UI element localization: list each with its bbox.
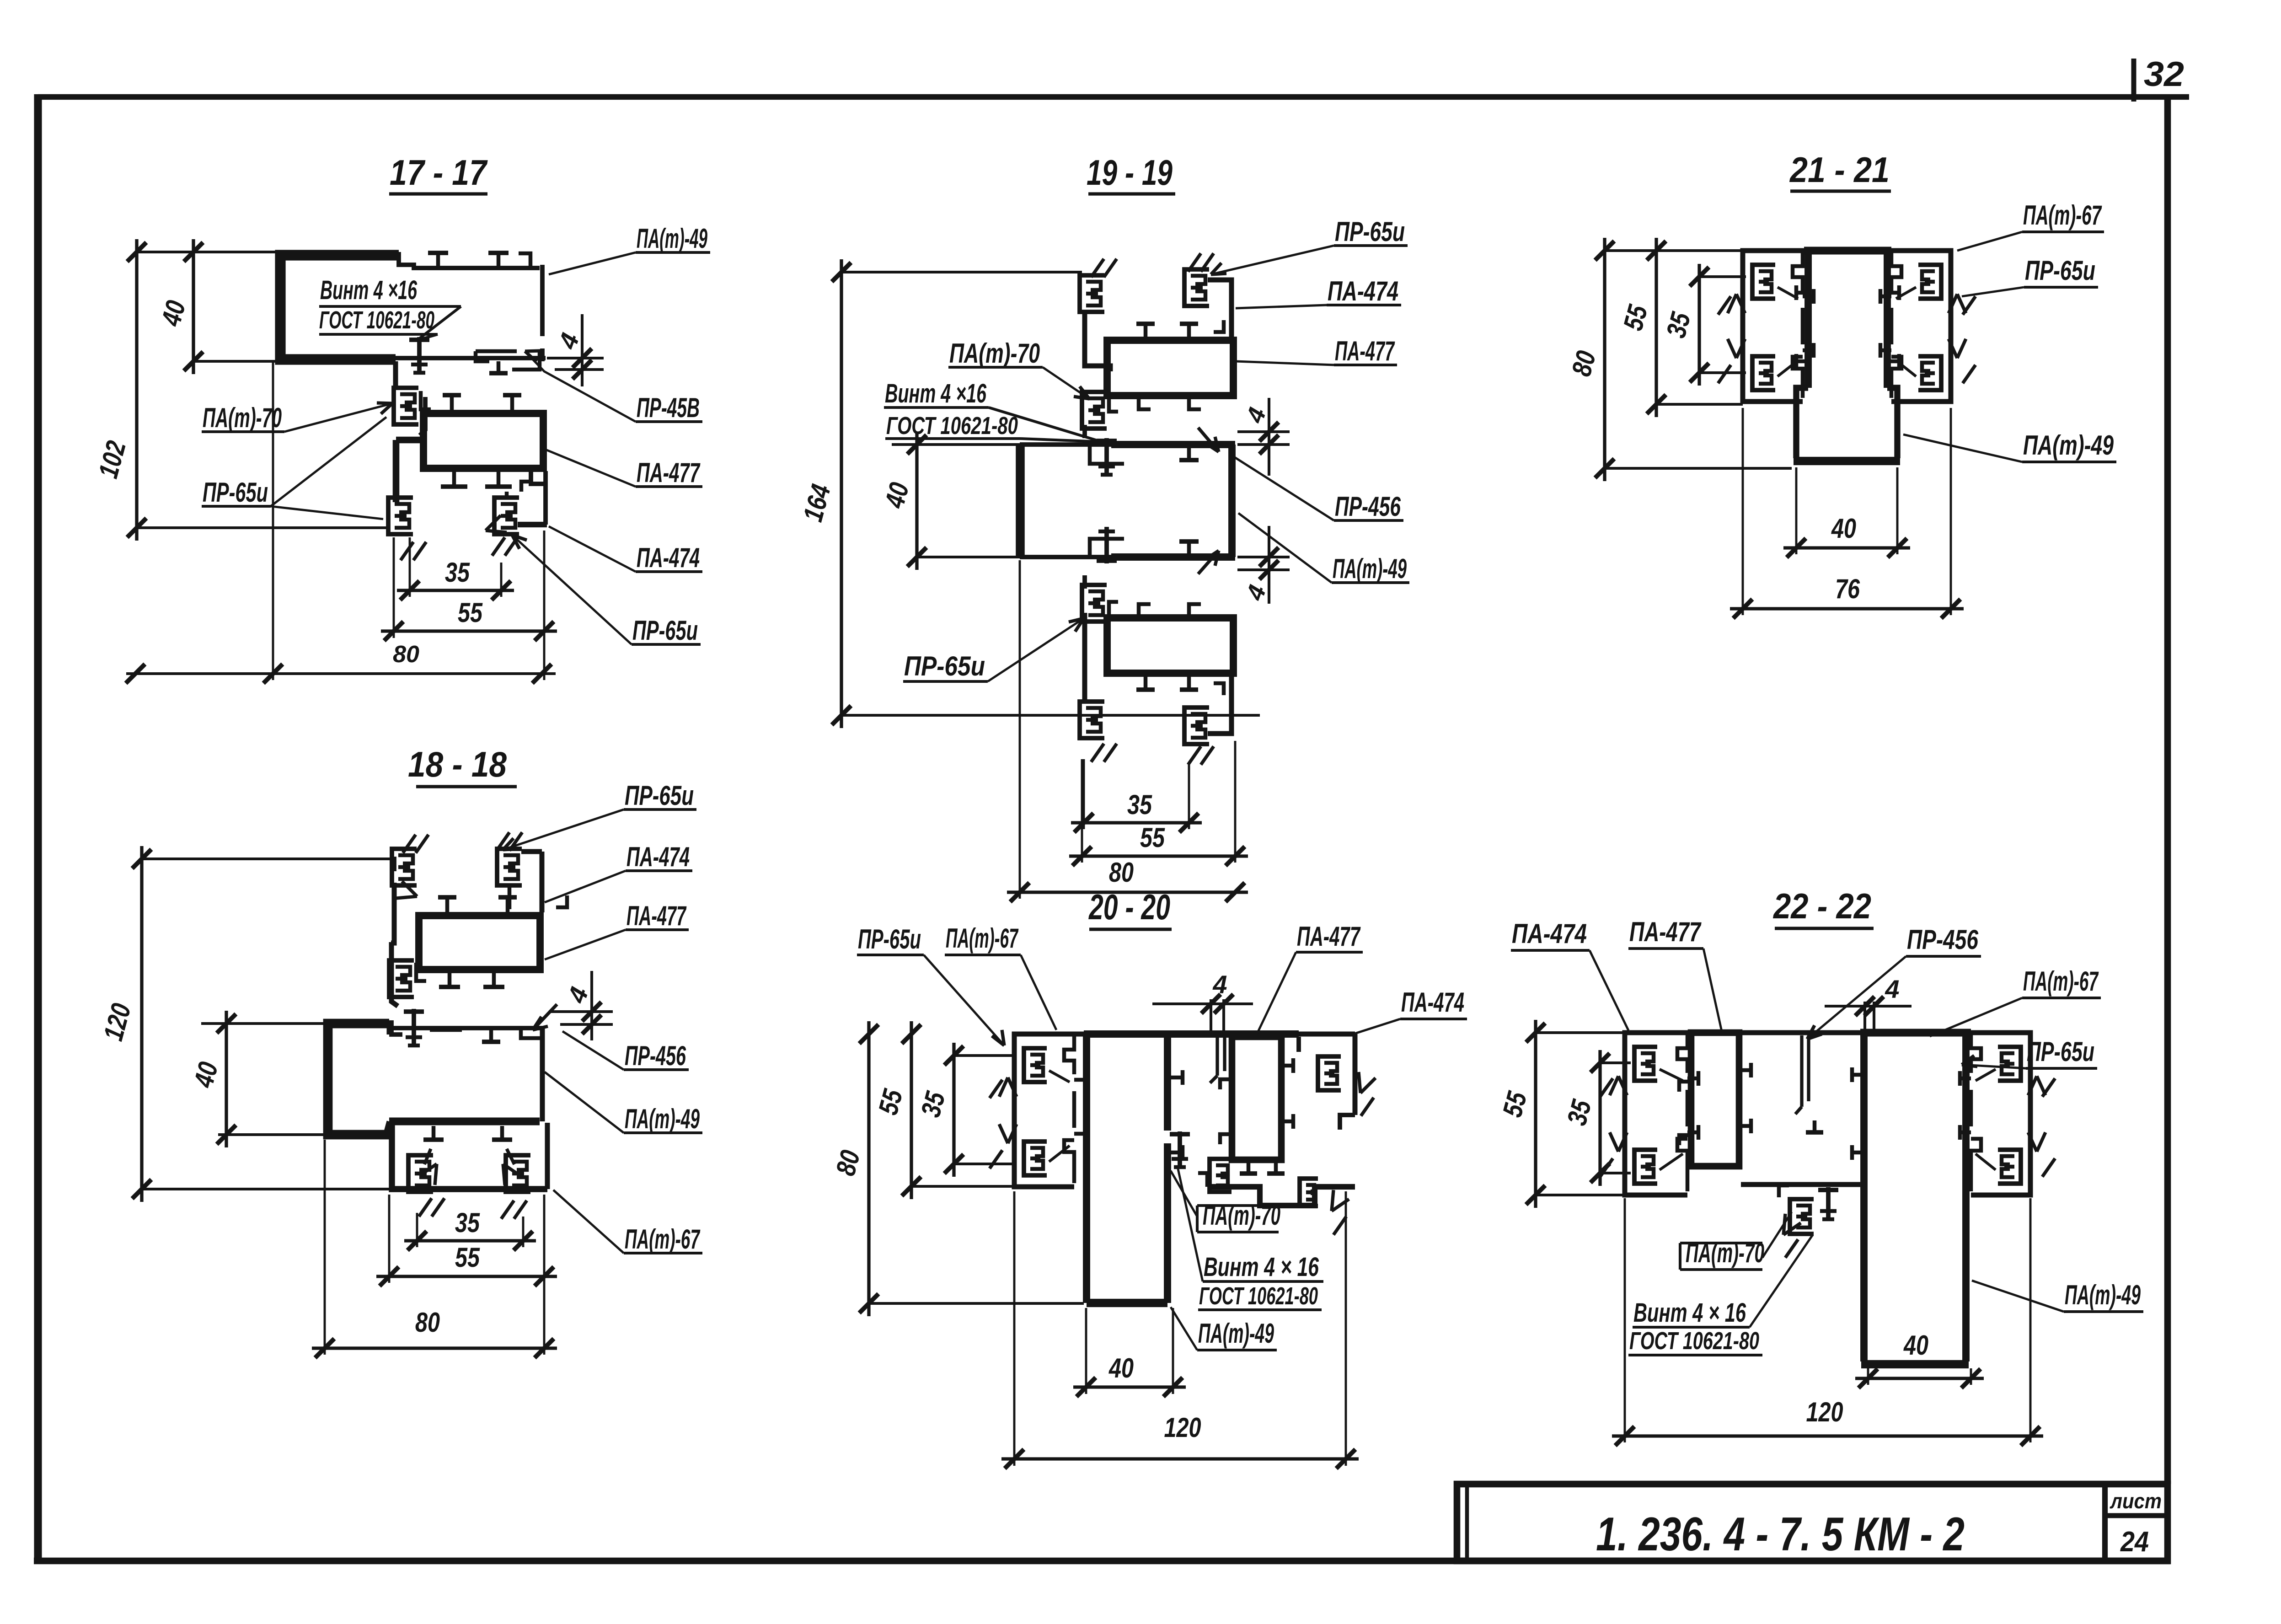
bottom-right clip 19-19 bbox=[1184, 707, 1209, 744]
dim 35 vertical 22-22 bbox=[1598, 1050, 1601, 1186]
dim 4 lower 19-19 bbox=[1268, 526, 1270, 604]
svg-text:ПР-456: ПР-456 bbox=[625, 1040, 686, 1071]
dim 40 vertical 18-18 bbox=[225, 1011, 228, 1147]
svg-text:ПА(т)-49: ПА(т)-49 bbox=[2065, 1280, 2141, 1310]
svg-text:ПР-65и: ПР-65и bbox=[203, 477, 268, 508]
svg-text:ПА-474: ПА-474 bbox=[1512, 918, 1587, 949]
dim 4 top 20-20 bbox=[1152, 1002, 1253, 1005]
svg-text:ПР-456: ПР-456 bbox=[1335, 491, 1401, 522]
PA(t)-49 big box 18-18 bbox=[328, 1024, 389, 1135]
clip PA(t)-70 18-18 bbox=[389, 960, 414, 997]
arrow into lower 4 gap 19-19 bbox=[1198, 551, 1219, 574]
bolt slots on PA(t)-49 top bbox=[436, 253, 440, 267]
svg-text:80: 80 bbox=[393, 641, 419, 668]
svg-text:ПР-65и: ПР-65и bbox=[632, 615, 698, 646]
T hooks below PA-477 18-18 bbox=[448, 972, 452, 987]
svg-text:ПА(т)-49: ПА(т)-49 bbox=[1198, 1318, 1274, 1349]
lower sash assembly 19-19 (mirror) bbox=[1082, 585, 1107, 622]
svg-text:4: 4 bbox=[1885, 975, 1899, 1003]
svg-text:120: 120 bbox=[1164, 1412, 1201, 1443]
top edge 22-22 bbox=[1625, 1030, 2030, 1035]
left wall step 18-18 bbox=[391, 942, 398, 1006]
dim 4 right side 17-17 bbox=[581, 314, 584, 386]
svg-text:ГОСТ 10621-80: ГОСТ 10621-80 bbox=[1199, 1282, 1318, 1310]
dim 40 22-22 bbox=[1855, 1377, 1984, 1380]
svg-text:ПР-65и: ПР-65и bbox=[625, 780, 694, 811]
left part PA-474 22-22 bbox=[1625, 1033, 1687, 1195]
dim 35 17-17 bbox=[397, 589, 514, 592]
sash box PA-477 20-20 bbox=[1232, 1037, 1281, 1160]
right part PA-474 20-20 bbox=[1353, 1034, 1358, 1115]
svg-text:35: 35 bbox=[1127, 789, 1152, 820]
svg-text:21 - 21: 21 - 21 bbox=[1789, 150, 1890, 190]
dim 55 vertical 21-21 bbox=[1655, 238, 1658, 417]
svg-text:ПР-65и: ПР-65и bbox=[2025, 255, 2095, 286]
dim 76 21-21 bbox=[1730, 607, 1964, 610]
svg-text:ПА-474: ПА-474 bbox=[626, 841, 690, 872]
svg-text:32: 32 bbox=[2144, 55, 2184, 94]
svg-text:4: 4 bbox=[1212, 970, 1227, 999]
left side part PA(t)-67 21-21 bbox=[1743, 251, 1803, 402]
svg-text:Винт 4 × 16: Винт 4 × 16 bbox=[1633, 1298, 1746, 1328]
bottom-left clip 19-19 bbox=[1080, 702, 1104, 738]
svg-text:ГОСТ 10621-80: ГОСТ 10621-80 bbox=[319, 306, 434, 334]
svg-text:Винт 4 × 16: Винт 4 × 16 bbox=[1204, 1252, 1319, 1282]
svg-text:ПР-65и: ПР-65и bbox=[904, 651, 985, 681]
joint strip + PR-45b 18-18 bbox=[391, 1020, 402, 1034]
PA(t)-67 bottom assembly 18-18 bbox=[392, 1121, 547, 1189]
svg-text:ГОСТ 10621-80: ГОСТ 10621-80 bbox=[886, 412, 1018, 439]
svg-text:19 - 19: 19 - 19 bbox=[1087, 152, 1173, 193]
dim 4 18-18 bbox=[590, 971, 593, 1040]
svg-text:40: 40 bbox=[1108, 1353, 1134, 1383]
screw + PA(t)-70 clip 20-20 bbox=[1178, 1131, 1182, 1167]
dim 120 vertical 18-18 bbox=[140, 846, 143, 1202]
svg-text:ПР-65и: ПР-65и bbox=[1335, 216, 1405, 247]
svg-text:ПА(т)-49: ПА(т)-49 bbox=[2023, 430, 2114, 461]
svg-text:17 - 17: 17 - 17 bbox=[390, 152, 488, 193]
T ticks right of sash 22-22 bbox=[1739, 1068, 1751, 1072]
upper PA-474 frame part 18-18 bbox=[391, 883, 394, 943]
svg-text:76: 76 bbox=[1835, 573, 1860, 604]
svg-text:35: 35 bbox=[455, 1207, 480, 1238]
dim 80 19-19 bbox=[1007, 890, 1248, 894]
dim 35 vertical 20-20 bbox=[952, 1043, 955, 1177]
svg-text:ПА-474: ПА-474 bbox=[637, 542, 700, 573]
svg-text:20 - 20: 20 - 20 bbox=[1088, 887, 1170, 927]
svg-text:ПА-477: ПА-477 bbox=[1297, 921, 1361, 952]
dim 55 18-18 bbox=[376, 1275, 557, 1278]
svg-text:ПА(т)-49: ПА(т)-49 bbox=[1333, 553, 1407, 584]
left side part PA(t)-67 20-20 bbox=[1014, 1034, 1074, 1187]
arrow into upper 4 gap 19-19 bbox=[1198, 428, 1219, 452]
svg-text:ПА(т)-70: ПА(т)-70 bbox=[203, 402, 282, 433]
svg-text:80: 80 bbox=[415, 1307, 440, 1338]
svg-text:18 - 18: 18 - 18 bbox=[408, 744, 507, 784]
bottom edges right assembly 20-20 bbox=[1208, 1187, 1355, 1206]
svg-text:ПР-456: ПР-456 bbox=[1907, 924, 1978, 955]
top edge 20-20 bbox=[1014, 1032, 1355, 1037]
PA(t)-49 middle box 19-19 bbox=[1016, 445, 1025, 557]
top edge 21-21 bbox=[1741, 248, 1953, 253]
joint strip PR-45v section 17-17 bbox=[393, 361, 398, 388]
dim 164 vertical 19-19 bbox=[840, 259, 843, 728]
dim 80 18-18 bbox=[312, 1346, 557, 1350]
svg-text:ПА(т)-49: ПА(т)-49 bbox=[625, 1104, 700, 1134]
svg-text:ПА(т)-67: ПА(т)-67 bbox=[625, 1224, 701, 1254]
central box PA(t)-49 20-20 bbox=[1083, 1034, 1090, 1303]
gasket PR-456 20-20 bbox=[1215, 1037, 1219, 1076]
dim 120 20-20 bbox=[1001, 1457, 1359, 1460]
svg-text:ПР-65и: ПР-65и bbox=[2027, 1036, 2094, 1067]
central box PA(t)-49 21-21 bbox=[1804, 254, 1812, 388]
svg-text:55: 55 bbox=[458, 597, 483, 628]
dim 80 17-17 bbox=[126, 672, 556, 675]
svg-text:Винт 4 ×16: Винт 4 ×16 bbox=[885, 379, 986, 408]
T hooks right wall 20-20 bbox=[1171, 1076, 1183, 1080]
clip bottom-left 18-18 bbox=[408, 1155, 433, 1192]
svg-text:ПА(т)-67: ПА(т)-67 bbox=[2023, 966, 2099, 997]
dim 80 vertical 21-21 bbox=[1603, 238, 1606, 481]
dim 40 vertical 17-17 bbox=[192, 239, 195, 374]
svg-text:Винт 4 ×16: Винт 4 ×16 bbox=[320, 275, 417, 305]
dim 55 19-19 bbox=[1069, 854, 1248, 858]
svg-text:120: 120 bbox=[1806, 1397, 1843, 1427]
svg-text:40: 40 bbox=[1903, 1330, 1928, 1361]
svg-text:80: 80 bbox=[1109, 857, 1134, 888]
dim 35 18-18 bbox=[404, 1239, 536, 1242]
page frame border bbox=[38, 94, 2189, 100]
hooks below sash 19-19 bbox=[1139, 396, 1151, 409]
hooks left of sash 20-20 bbox=[1220, 1079, 1232, 1089]
PA-477 sash box 18-18 bbox=[419, 916, 540, 970]
dim 4 top 22-22 bbox=[1825, 1005, 1912, 1008]
svg-text:40: 40 bbox=[1831, 513, 1856, 544]
sash box PA-477 22-22 bbox=[1691, 1033, 1739, 1166]
svg-text:ПР-45В: ПР-45В bbox=[637, 392, 700, 423]
dim 4 upper 19-19 bbox=[1268, 398, 1270, 476]
profile PA(t)-49 main box section 17-17 bbox=[280, 255, 399, 359]
bottom joint under sash 22-22 bbox=[1741, 1182, 1860, 1187]
svg-text:ПА-474: ПА-474 bbox=[1328, 276, 1398, 306]
dim 102 vertical 17-17 bbox=[135, 239, 138, 541]
svg-text:ПА(т)-49: ПА(т)-49 bbox=[637, 223, 707, 254]
clip top-left PR-65i 18-18 bbox=[392, 849, 417, 885]
svg-text:ПР-65и: ПР-65и bbox=[858, 924, 921, 954]
dim 35 vertical 21-21 bbox=[1697, 264, 1701, 386]
svg-text:ПА-477: ПА-477 bbox=[626, 900, 687, 931]
dim 80 vertical 20-20 bbox=[867, 1021, 870, 1316]
hooks left of sash 22-22 bbox=[1679, 1082, 1691, 1092]
dim 40 21-21 bbox=[1783, 546, 1910, 549]
T ticks on box walls 21-21 bbox=[1796, 291, 1808, 295]
svg-text:ПА-477: ПА-477 bbox=[1629, 917, 1702, 947]
svg-text:лист: лист bbox=[2110, 1489, 2162, 1513]
clip top-right PR-65i 18-18 bbox=[497, 849, 522, 885]
lower right PA-474 hook bbox=[531, 471, 546, 484]
svg-text:ПА(т)-70: ПА(т)-70 bbox=[949, 338, 1040, 369]
right side part 21-21 bbox=[1891, 251, 1951, 402]
svg-text:ПА-477: ПА-477 bbox=[1335, 336, 1395, 366]
sheet number 32 top right bbox=[2131, 59, 2136, 102]
svg-text:24: 24 bbox=[2120, 1526, 2149, 1558]
left wall step down to lower clip bbox=[396, 437, 421, 444]
dim 120 22-22 bbox=[1612, 1434, 2043, 1437]
central box PA(t)-49 22-22 bbox=[1860, 1033, 1868, 1361]
T hooks below PA-477 bbox=[452, 471, 456, 487]
screw upper joint 19-19 bbox=[1104, 438, 1109, 475]
T hooks left wall 22-22 bbox=[1852, 1073, 1864, 1077]
svg-text:ПА-477: ПА-477 bbox=[637, 457, 701, 488]
svg-text:55: 55 bbox=[455, 1242, 480, 1273]
top-left clip PR-65i 19-19 bbox=[1080, 275, 1104, 312]
T hooks inside PA(t)-67 18-18 bbox=[432, 1126, 436, 1140]
clip bottom-right 18-18 bbox=[506, 1155, 530, 1192]
gasket PR-456 22-22 bbox=[1800, 1035, 1803, 1107]
clip bottom-right PR-65i 17-17 bbox=[494, 498, 519, 534]
dim 40 bottom 20-20 bbox=[1073, 1385, 1186, 1388]
leader flag to screw bbox=[417, 306, 461, 340]
svg-text:55: 55 bbox=[1140, 822, 1165, 853]
svg-text:22 - 22: 22 - 22 bbox=[1772, 886, 1871, 926]
right part PA(t)-67 22-22 bbox=[1971, 1033, 2030, 1195]
title block frame bbox=[1457, 1484, 2168, 1561]
svg-text:ПА(т)-67: ПА(т)-67 bbox=[946, 923, 1019, 954]
dim 40 vertical 19-19 bbox=[915, 432, 918, 570]
clip PA(t)-70 19-19 bbox=[1082, 392, 1107, 429]
dim 55 vertical 22-22 bbox=[1534, 1020, 1537, 1208]
PA-477 sash box upper 19-19 bbox=[1107, 340, 1233, 396]
svg-text:ПА-474: ПА-474 bbox=[1401, 987, 1464, 1018]
svg-text:ПА(т)-67: ПА(т)-67 bbox=[2023, 200, 2102, 230]
top-right clip PR-65i 19-19 bbox=[1184, 269, 1209, 306]
svg-text:1. 236. 4 - 7. 5 КМ - 2: 1. 236. 4 - 7. 5 КМ - 2 bbox=[1596, 1508, 1965, 1561]
dim 35 19-19 bbox=[1071, 821, 1202, 824]
clip PA(t)-70 17-17 bbox=[394, 388, 418, 424]
PA-477 sash box 17-17 bbox=[423, 413, 543, 468]
clip bottom-left PR-65i 17-17 bbox=[388, 498, 413, 534]
PA-477 sash box lower 19-19 bbox=[1107, 618, 1233, 673]
dim 55 17-17 bbox=[381, 629, 557, 632]
screw lower joint 19-19 bbox=[1104, 527, 1109, 563]
dim 55 vertical 20-20 bbox=[910, 1021, 913, 1199]
arrow into 4 gap 18-18 bbox=[533, 1004, 557, 1030]
T ticks right of sash 20-20 bbox=[1281, 1064, 1293, 1068]
svg-text:35: 35 bbox=[445, 557, 470, 588]
screw Vint 4x16 below box bbox=[417, 337, 422, 373]
svg-text:ГОСТ 10621-80: ГОСТ 10621-80 bbox=[1629, 1327, 1759, 1355]
